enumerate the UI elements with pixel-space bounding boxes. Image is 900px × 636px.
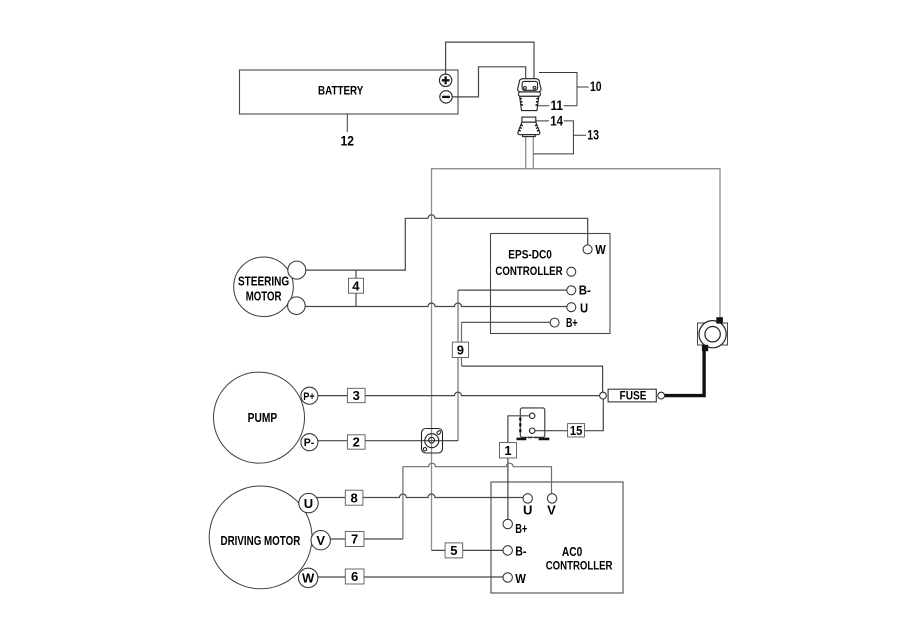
svg-text:EPS-DC0: EPS-DC0: [508, 247, 552, 261]
svg-text:7: 7: [351, 532, 358, 547]
svg-text:CONTROLLER: CONTROLLER: [495, 264, 562, 278]
svg-text:15: 15: [570, 423, 583, 438]
svg-text:13: 13: [587, 128, 599, 143]
svg-text:W: W: [595, 242, 606, 257]
svg-text:DRIVING MOTOR: DRIVING MOTOR: [221, 533, 301, 548]
svg-text:PUMP: PUMP: [248, 410, 278, 425]
svg-text:8: 8: [350, 490, 357, 505]
svg-text:P-: P-: [304, 437, 315, 449]
svg-text:V: V: [547, 502, 556, 517]
svg-text:CONTROLLER: CONTROLLER: [546, 558, 613, 572]
svg-text:14: 14: [550, 114, 563, 129]
svg-text:FUSE: FUSE: [620, 391, 647, 403]
svg-text:U: U: [523, 502, 532, 517]
svg-text:U: U: [304, 496, 313, 511]
svg-text:BATTERY: BATTERY: [318, 84, 363, 98]
svg-text:2: 2: [353, 435, 360, 450]
svg-text:W: W: [302, 571, 315, 586]
svg-text:U: U: [580, 300, 588, 315]
svg-text:AC0: AC0: [562, 544, 582, 559]
svg-text:3: 3: [353, 388, 360, 403]
svg-text:4: 4: [352, 278, 360, 293]
svg-text:12: 12: [341, 132, 355, 148]
svg-text:W: W: [515, 571, 526, 586]
svg-text:P+: P+: [303, 391, 315, 403]
svg-text:STEERING: STEERING: [238, 273, 289, 288]
svg-text:B+: B+: [515, 521, 527, 536]
svg-text:5: 5: [450, 543, 457, 558]
svg-text:B+: B+: [566, 315, 578, 330]
svg-text:9: 9: [457, 343, 464, 358]
svg-text:10: 10: [590, 79, 602, 94]
svg-text:B-: B-: [579, 283, 591, 298]
svg-text:6: 6: [351, 569, 358, 584]
svg-text:11: 11: [550, 98, 563, 113]
svg-text:1: 1: [504, 443, 511, 458]
svg-text:MOTOR: MOTOR: [246, 288, 282, 303]
svg-text:B-: B-: [515, 544, 526, 559]
svg-text:V: V: [316, 533, 325, 548]
